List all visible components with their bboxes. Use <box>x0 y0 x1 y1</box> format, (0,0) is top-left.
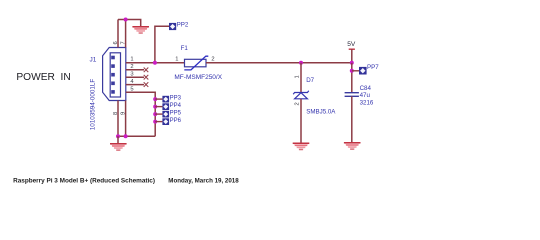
svg-text:MF-MSMF250/X: MF-MSMF250/X <box>174 74 222 81</box>
testpoint PP5 <box>162 111 169 118</box>
wire pin8 stub <box>117 101 119 137</box>
wire gnd stem bottom <box>117 136 119 143</box>
svg-text:D7: D7 <box>306 77 314 84</box>
wire pin5 to testpoint chain <box>126 92 155 136</box>
junction PP6 tap <box>153 120 157 124</box>
testpoint PP2 <box>169 23 176 30</box>
svg-text:10103594-0001LF: 10103594-0001LF <box>90 79 97 131</box>
wire 5V node down to C84 <box>351 63 353 92</box>
junction 5V node <box>350 61 354 65</box>
svg-text:PP2: PP2 <box>177 22 189 29</box>
svg-text:PP7: PP7 <box>367 64 379 71</box>
svg-text:3216: 3216 <box>360 100 374 107</box>
junction pin9 <box>124 134 128 138</box>
junction pin1/PP2 <box>153 61 157 65</box>
no-connect X pin2 <box>144 68 149 73</box>
power symbol 5V <box>347 41 356 63</box>
svg-text:SMBJ5.0A: SMBJ5.0A <box>306 108 336 115</box>
ground GND under C84 <box>344 143 361 150</box>
no-connect X pin3 <box>144 75 149 80</box>
svg-text:Monday, March 19, 2018: Monday, March 19, 2018 <box>168 177 239 184</box>
wire pin7 stub <box>125 20 127 48</box>
svg-text:1: 1 <box>294 75 300 78</box>
wire PP4 tap <box>155 106 162 108</box>
wire PP3 tap <box>155 98 162 100</box>
wire C84 to ground <box>351 96 353 142</box>
wire pin3 stub (NC) <box>126 76 144 78</box>
svg-text:5: 5 <box>130 86 133 92</box>
wire D7 cathode to ground <box>300 99 302 143</box>
wire pin6 stub <box>117 20 119 48</box>
junction D7 tap <box>299 61 303 65</box>
svg-text:2: 2 <box>294 102 300 105</box>
no-connect X pin4 <box>144 82 149 87</box>
svg-text:2: 2 <box>211 56 214 62</box>
svg-text:C84: C84 <box>360 85 372 92</box>
svg-text:Raspberry Pi 3 Model B+ (Reduc: Raspberry Pi 3 Model B+ (Reduced Schemat… <box>13 177 155 184</box>
junction PP4 tap <box>153 105 157 109</box>
diode D7 zener TVS <box>293 91 309 99</box>
svg-text:F1: F1 <box>181 45 189 52</box>
junction PP3 tap <box>153 97 157 101</box>
wire PP5 tap <box>155 113 162 115</box>
svg-text:1: 1 <box>130 56 133 62</box>
testpoint PP3 <box>162 96 169 103</box>
wire pin4 stub (NC) <box>126 84 144 86</box>
svg-text:5V: 5V <box>347 41 356 48</box>
ground GND top <box>132 27 149 34</box>
junction pin8/gnd <box>116 134 120 138</box>
ground GND bottom-left <box>110 144 127 151</box>
svg-text:PP6: PP6 <box>170 118 182 124</box>
svg-text:POWER IN: POWER IN <box>16 72 70 83</box>
wire top shield to ground <box>118 20 141 27</box>
wire 5V rail F1 to node <box>206 62 352 64</box>
testpoint PP7 <box>359 67 367 75</box>
ground GND under D7 <box>293 143 310 150</box>
svg-text:PP4: PP4 <box>170 103 182 109</box>
junction PP5 tap <box>153 112 157 116</box>
svg-text:PP5: PP5 <box>170 110 182 116</box>
svg-text:1: 1 <box>175 56 178 62</box>
wire pin9 stub <box>125 101 127 137</box>
wire D7 anode drop <box>300 63 302 93</box>
wire pin1 to F1 <box>126 62 185 64</box>
capacitor C84 <box>345 93 359 97</box>
junction PP7 tap <box>350 69 354 73</box>
connector J1 inner contact pads <box>111 56 115 94</box>
testpoint PP4 <box>162 103 169 110</box>
wire bottom shield bus <box>118 135 155 137</box>
svg-text:47u: 47u <box>360 92 371 99</box>
wire PP7 stub <box>352 70 359 72</box>
fuse F1 body <box>184 56 208 70</box>
svg-text:PP3: PP3 <box>170 95 182 101</box>
testpoint PP6 <box>162 118 169 125</box>
wire pin2 stub (NC) <box>126 69 144 71</box>
svg-text:J1: J1 <box>90 57 97 64</box>
wire PP6 tap <box>155 121 162 123</box>
wire PP2 stub <box>155 26 169 63</box>
connector J1 micro-USB body <box>103 48 126 101</box>
junction top shield <box>124 18 128 22</box>
